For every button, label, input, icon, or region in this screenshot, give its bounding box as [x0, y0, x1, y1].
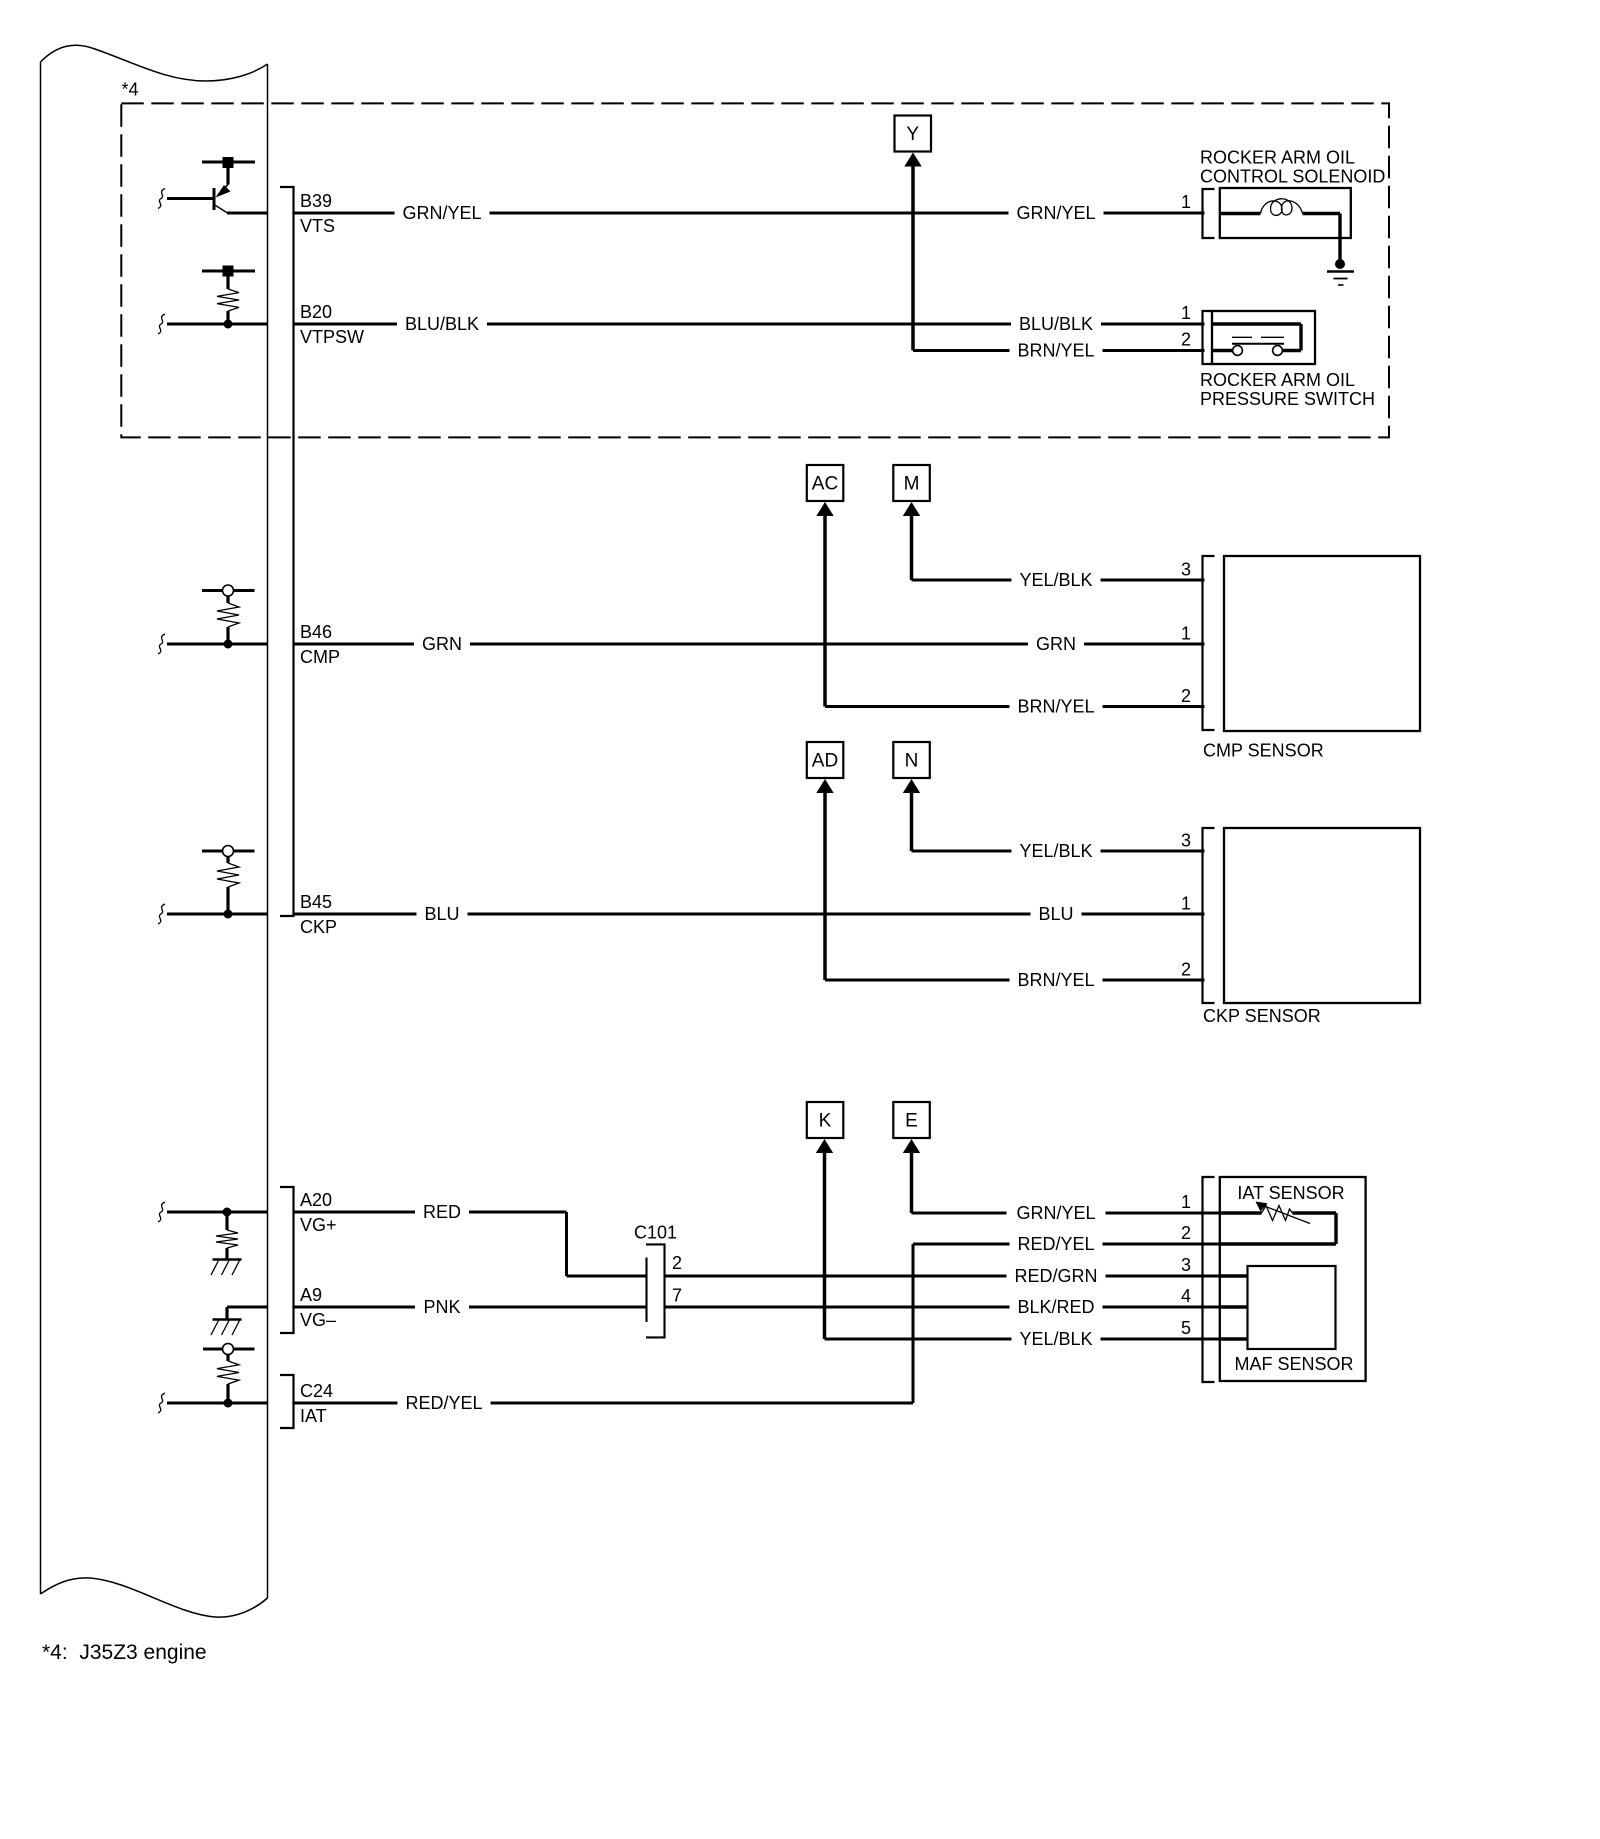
wire RED/GRN C101 pin 2 to MAF pin 3: [665, 1275, 1248, 1278]
torn-wire mark (C24): [158, 1393, 165, 1413]
svg-text:*4: *4: [122, 80, 139, 100]
connector AC to BRN/YEL vertical wire: [823, 512, 827, 707]
label GRN (right, CMP): [1036, 634, 1076, 654]
connector N to YEL/BLK vertical wire: [910, 789, 914, 851]
supply node bar (CMP pull-up): [202, 589, 255, 592]
svg-text:1: 1: [1181, 1192, 1191, 1212]
svg-text:IAT SENSOR: IAT SENSOR: [1237, 1183, 1344, 1203]
label ROCKER ARM OIL PRESSURE SWITCH: [1200, 370, 1375, 409]
CKP sensor box: [1224, 828, 1420, 1003]
label YEL/BLK (CMP pin 3): [1019, 570, 1092, 590]
svg-text:2: 2: [1181, 330, 1191, 350]
arrowhead to AC: [816, 502, 833, 516]
pin 2 label (CKP): [1181, 960, 1191, 980]
wire GRN/YEL B39 to solenoid pin 1: [294, 212, 1205, 215]
svg-text:BLU/BLK: BLU/BLK: [405, 314, 479, 334]
connector box E: [893, 1102, 930, 1138]
label GRN/YEL (right, solenoid): [1016, 203, 1095, 223]
label PNK (A9): [423, 1297, 460, 1317]
resistor CKP pull-up: [217, 857, 239, 915]
svg-text:IAT: IAT: [300, 1406, 327, 1426]
torn-wire mark (B46): [158, 634, 165, 654]
wire B46 stub: [167, 643, 268, 646]
pin 3 label (CMP): [1181, 560, 1191, 580]
connector box M: [893, 465, 930, 501]
svg-text:BRN/YEL: BRN/YEL: [1017, 697, 1094, 717]
svg-text:A20: A20: [300, 1190, 332, 1210]
supply rail bar (VTS driver): [202, 157, 255, 168]
svg-text:VTPSW: VTPSW: [300, 327, 364, 347]
label BLU (right, CKP): [1038, 904, 1073, 924]
svg-text:AD: AD: [812, 751, 838, 772]
svg-text:CKP: CKP: [300, 917, 337, 937]
torn-wire mark (B45): [158, 904, 165, 924]
MAF pin 4 stub: [1220, 1305, 1248, 1308]
svg-text:5: 5: [1181, 1318, 1191, 1338]
label BLU (left, B45): [424, 904, 459, 924]
svg-text:CKP SENSOR: CKP SENSOR: [1203, 1006, 1321, 1026]
svg-text:BRN/YEL: BRN/YEL: [1017, 341, 1094, 361]
connector bracket (pressure switch): [1203, 311, 1215, 364]
svg-text:M: M: [904, 474, 920, 495]
pin C24 / IAT label: [300, 1381, 333, 1426]
pin 5 label (MAF): [1181, 1318, 1191, 1338]
arrowhead to M: [903, 502, 920, 516]
label RED (A20): [423, 1202, 461, 1222]
ECM/PCM torn strip top tear edge: [41, 45, 268, 81]
wire BRN/YEL AD to CKP pin 2: [825, 979, 1205, 982]
wire BLK/RED C101 pin 7 to MAF pin 4: [665, 1306, 1248, 1309]
pin A9 / VG- label: [300, 1285, 336, 1330]
wire BRN/YEL Y to pressure switch pin 2: [913, 349, 1205, 352]
pin A20 / VG+ label: [300, 1190, 337, 1235]
pin 2 label (CMP): [1181, 686, 1191, 706]
svg-text:VG–: VG–: [300, 1310, 336, 1330]
svg-text:C101: C101: [634, 1222, 677, 1242]
svg-text:1: 1: [1181, 192, 1191, 212]
wire YEL/BLK N to CKP pin 3: [912, 850, 1205, 853]
junction (solenoid ground): [1335, 259, 1345, 269]
pin 1 label (solenoid): [1181, 192, 1191, 212]
wire YEL/BLK M to CMP pin 3: [912, 579, 1205, 582]
arrowhead to Y: [904, 153, 921, 167]
torn-wire mark (transistor base): [158, 189, 165, 209]
ECM/PCM torn strip bottom tear edge: [41, 1578, 268, 1617]
MAF sensor assembly box: [1220, 1177, 1366, 1381]
dashed option box *4 (J35Z3 engine): [121, 103, 1389, 437]
connector bracket (MAF sensor): [1203, 1177, 1215, 1382]
svg-text:RED/YEL: RED/YEL: [1017, 1234, 1094, 1254]
svg-text:BLU: BLU: [1038, 904, 1073, 924]
label RED/GRN (MAF pin 3): [1014, 1266, 1097, 1286]
svg-text:1: 1: [1181, 303, 1191, 323]
svg-text:CONTROL SOLENOID: CONTROL SOLENOID: [1200, 166, 1385, 186]
pin 1 label (MAF): [1181, 1192, 1191, 1212]
svg-text:RED: RED: [423, 1202, 461, 1222]
pin B46 / CMP label: [300, 622, 340, 667]
open node (CMP supply): [223, 585, 234, 596]
svg-text:1: 1: [1181, 624, 1191, 644]
svg-text:VG+: VG+: [300, 1215, 337, 1235]
svg-text:C24: C24: [300, 1381, 333, 1401]
ECM connector B bracket: [280, 187, 294, 916]
connector box N: [893, 742, 930, 778]
label YEL/BLK (CKP pin 3): [1019, 841, 1092, 861]
svg-text:3: 3: [1181, 1255, 1191, 1275]
wire B20 stub: [167, 323, 268, 326]
label BRN/YEL (CKP pin 2): [1017, 970, 1094, 990]
svg-text:B45: B45: [300, 892, 332, 912]
wire RED A20 to C101 pin 2: [294, 1212, 647, 1276]
thermistor IAT sensor element: [1220, 1202, 1336, 1245]
pressure switch S1 contacts: [1212, 324, 1301, 355]
wire A9 stub: [227, 1307, 268, 1319]
MAF sensor inner box: [1248, 1266, 1336, 1349]
svg-text:GRN/YEL: GRN/YEL: [402, 203, 481, 223]
CMP sensor box: [1224, 556, 1420, 731]
pin 1 label (CKP): [1181, 894, 1191, 914]
wire GRN/YEL E to MAF pin 1: [912, 1212, 1220, 1215]
resistor CMP pull-up: [217, 596, 239, 644]
label C101: [634, 1222, 677, 1242]
open node (IAT supply): [223, 1344, 234, 1355]
arrowhead to AD: [816, 779, 833, 793]
footnote *4: J35Z3 engine: [42, 1641, 207, 1664]
wire C24 stub: [167, 1402, 268, 1405]
connector box K: [807, 1102, 844, 1138]
svg-text:4: 4: [1181, 1286, 1191, 1306]
transistor Q1 VTS output driver: [167, 167, 231, 213]
svg-text:E: E: [905, 1111, 918, 1132]
ECM/PCM torn strip right edge: [267, 64, 269, 1598]
wire BLU B45 to CKP pin 1: [294, 913, 1205, 916]
connector box AD: [807, 742, 844, 778]
svg-text:YEL/BLK: YEL/BLK: [1019, 570, 1092, 590]
wire RED/YEL riser C24 to MAF pin 2: [913, 1244, 1219, 1403]
pin 2 label (C101): [672, 1253, 682, 1273]
inline connector C101: [646, 1244, 665, 1337]
chassis ground (A20): [211, 1260, 242, 1276]
open node (CKP supply): [223, 846, 234, 857]
torn-wire mark (B20): [158, 314, 165, 334]
pin 7 label (C101): [672, 1286, 682, 1306]
svg-text:BLU/BLK: BLU/BLK: [1019, 314, 1093, 334]
svg-text:B46: B46: [300, 622, 332, 642]
connector M to YEL/BLK vertical wire: [910, 512, 914, 580]
svg-text:3: 3: [1181, 560, 1191, 580]
ECM connector A bracket: [280, 1187, 294, 1333]
label BRN/YEL (CMP pin 2): [1017, 697, 1094, 717]
junction A20: [223, 1208, 232, 1217]
svg-text:YEL/BLK: YEL/BLK: [1019, 1329, 1092, 1349]
label CKP SENSOR: [1203, 1006, 1321, 1026]
svg-text:AC: AC: [812, 474, 838, 495]
ECM connector C bracket: [280, 1375, 294, 1428]
svg-text:GRN: GRN: [1036, 634, 1076, 654]
svg-text:3: 3: [1181, 831, 1191, 851]
svg-text:MAF SENSOR: MAF SENSOR: [1234, 1354, 1353, 1374]
label GRN/YEL (MAF pin 1): [1016, 1203, 1095, 1223]
label CMP SENSOR: [1203, 741, 1324, 761]
label RED/YEL (MAF pin 2): [1017, 1234, 1094, 1254]
label IAT SENSOR: [1237, 1183, 1344, 1203]
svg-text:Y: Y: [906, 124, 919, 145]
svg-text:BLK/RED: BLK/RED: [1017, 1297, 1094, 1317]
svg-text:A9: A9: [300, 1285, 322, 1305]
label ROCKER ARM OIL CONTROL SOLENOID: [1200, 148, 1385, 187]
ECM/PCM torn strip left edge: [40, 62, 42, 1594]
supply node bar (CKP pull-up): [202, 850, 255, 853]
wire GRN B46 to CMP pin 1: [294, 643, 1205, 646]
label BLU/BLK (left, B20): [405, 314, 479, 334]
svg-text:2: 2: [672, 1253, 682, 1273]
resistor A20 load: [216, 1212, 238, 1259]
label BRN/YEL (switch pin 2): [1017, 341, 1094, 361]
wire RED/YEL C24 to riser: [294, 1402, 914, 1405]
junction C24: [224, 1399, 233, 1408]
label *4: [122, 80, 139, 100]
label RED/YEL (C24): [405, 1393, 482, 1413]
connector Y to ECM vertical wire: [911, 163, 915, 351]
svg-text:RED/GRN: RED/GRN: [1014, 1266, 1097, 1286]
svg-text:2: 2: [1181, 686, 1191, 706]
svg-text:BLU: BLU: [424, 904, 459, 924]
pin 3 label (CKP): [1181, 831, 1191, 851]
MAF pin 3 stub: [1220, 1274, 1248, 1277]
svg-text:ROCKER ARM OIL: ROCKER ARM OIL: [1200, 148, 1355, 168]
pin 1 label (CMP): [1181, 624, 1191, 644]
svg-text:1: 1: [1181, 894, 1191, 914]
pin B20 / VTPSW label: [300, 302, 364, 347]
pin 3 label (MAF): [1181, 1255, 1191, 1275]
wire BLU/BLK B20 to pressure switch pin 1: [294, 323, 1205, 326]
svg-text:PNK: PNK: [423, 1297, 460, 1317]
connector E to GRN/YEL vertical wire: [910, 1149, 914, 1213]
label MAF SENSOR: [1234, 1354, 1353, 1374]
resistor VTPSW pull-up: [217, 277, 239, 325]
svg-text:VTS: VTS: [300, 216, 335, 236]
label GRN/YEL (left, B39): [402, 203, 481, 223]
supply node bar (IAT pull-up): [203, 1348, 255, 1351]
svg-text:2: 2: [1181, 960, 1191, 980]
MAF pin 5 stub: [1220, 1337, 1248, 1340]
arrowhead to E: [903, 1139, 920, 1153]
junction B45: [224, 910, 233, 919]
svg-text:GRN/YEL: GRN/YEL: [1016, 203, 1095, 223]
arrowhead to N: [903, 779, 920, 793]
svg-text:RED/YEL: RED/YEL: [405, 1393, 482, 1413]
rocker arm oil pressure switch box: [1212, 311, 1315, 364]
svg-text:7: 7: [672, 1286, 682, 1306]
svg-text:CMP SENSOR: CMP SENSOR: [1203, 741, 1324, 761]
wire YEL/BLK K to MAF pin 5: [825, 1338, 1248, 1341]
ground (solenoid): [1327, 272, 1354, 286]
torn-wire mark (A20): [158, 1202, 165, 1222]
connector K to YEL/BLK vertical wire: [823, 1149, 827, 1339]
label YEL/BLK (MAF pin 5): [1019, 1329, 1092, 1349]
svg-text:N: N: [905, 751, 919, 772]
connector bracket (CKP sensor): [1203, 828, 1215, 1003]
pin B39 / VTS label: [300, 191, 335, 236]
label BLU/BLK (right, switch): [1019, 314, 1093, 334]
pin 4 label (MAF): [1181, 1286, 1191, 1306]
label GRN (left, B46): [422, 634, 462, 654]
pin B45 / CKP label: [300, 892, 337, 937]
svg-text:ROCKER ARM OIL: ROCKER ARM OIL: [1200, 370, 1355, 390]
svg-text:GRN: GRN: [422, 634, 462, 654]
wire PNK A9 to C101 pin 7: [294, 1306, 647, 1309]
supply rail bar (VTPSW pull-up): [202, 266, 255, 277]
svg-text:PRESSURE SWITCH: PRESSURE SWITCH: [1200, 389, 1375, 409]
connector bracket (solenoid): [1203, 189, 1215, 238]
connector box Y: [895, 116, 932, 152]
connector box AC: [807, 465, 844, 501]
svg-text:CMP: CMP: [300, 647, 340, 667]
svg-text:BRN/YEL: BRN/YEL: [1017, 970, 1094, 990]
wire B39 emitter stub: [227, 212, 268, 215]
wire A20 stub: [167, 1211, 268, 1214]
svg-text:GRN/YEL: GRN/YEL: [1016, 1203, 1095, 1223]
wire BRN/YEL AC to CMP pin 2: [825, 705, 1205, 708]
svg-text:*4: J35Z3 engine: *4: J35Z3 engine: [42, 1641, 207, 1664]
pin 2 label (switch): [1181, 330, 1191, 350]
pin 2 label (MAF): [1181, 1223, 1191, 1243]
svg-text:K: K: [819, 1111, 832, 1132]
chassis ground (A9): [211, 1320, 242, 1336]
svg-text:YEL/BLK: YEL/BLK: [1019, 841, 1092, 861]
svg-text:B39: B39: [300, 191, 332, 211]
solenoid L1 coil: [1220, 199, 1340, 264]
junction B20: [224, 320, 233, 329]
svg-text:2: 2: [1181, 1223, 1191, 1243]
rocker arm oil control solenoid box: [1220, 188, 1351, 238]
connector AD to BRN/YEL vertical wire: [823, 789, 827, 980]
pin 1 label (switch): [1181, 303, 1191, 323]
svg-text:B20: B20: [300, 302, 332, 322]
resistor IAT pull-up: [217, 1355, 239, 1404]
arrowhead to K: [816, 1139, 833, 1153]
junction B46: [224, 640, 233, 649]
label BLK/RED (MAF pin 4): [1017, 1297, 1094, 1317]
wire B45 stub: [167, 913, 268, 916]
connector bracket (CMP sensor): [1203, 556, 1215, 730]
